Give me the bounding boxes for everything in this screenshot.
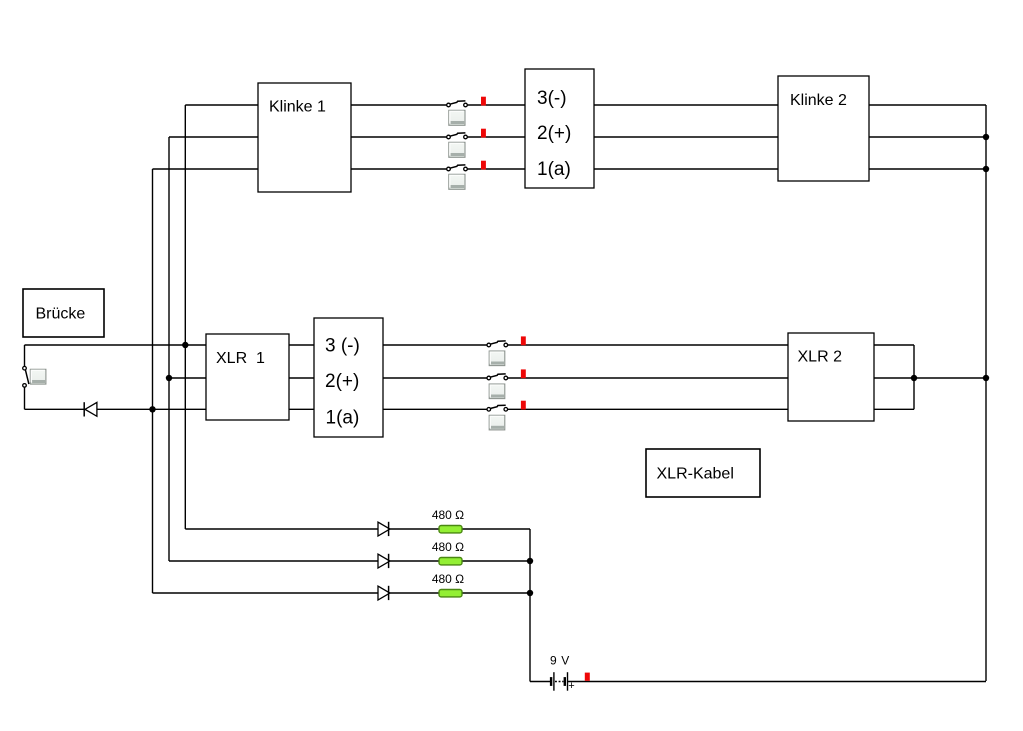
svg-text:+: + — [568, 680, 574, 692]
battery B1 9V — [550, 672, 575, 692]
node XLR2 short — [911, 375, 917, 381]
resistor R3 — [439, 590, 462, 597]
wire switch S4 to XLR2 pin3 — [507, 344, 788, 346]
node XLR2-trunk — [983, 375, 989, 381]
wire Klinke2 pin1 to right trunk — [869, 168, 986, 170]
wire resistor R2 to v530 — [462, 560, 530, 562]
svg-text:3 (-): 3 (-) — [325, 336, 360, 357]
wire Klinke1 pin3 left — [185, 104, 258, 106]
node Klinke2 pin1-trunk — [983, 166, 989, 172]
wire bus x185 to diode D1 — [185, 528, 378, 530]
svg-text:3(-): 3(-) — [537, 88, 567, 109]
wire resistor R3 to v530 — [462, 592, 530, 594]
wire battery plus to right trunk — [568, 681, 987, 683]
resistor R2 — [439, 558, 462, 565]
svg-text:9: 9 — [550, 654, 557, 668]
indicator red S4 — [521, 336, 526, 345]
wire XLR1 pin1 stub — [289, 408, 314, 410]
wire diode D4 to XLR1 pin1 — [97, 408, 206, 410]
switch S1 — [447, 101, 468, 107]
switch S5 — [487, 374, 508, 380]
wire Klinke1 pin1 left — [153, 168, 259, 170]
wire bus x152 to diode D3 — [153, 592, 378, 594]
indicator red S3 — [481, 161, 486, 170]
wire switch S6 to XLR2 pin1 — [507, 408, 788, 410]
box Bruecke — [23, 289, 104, 337]
svg-text:480 Ω: 480 Ω — [432, 540, 464, 554]
wire pinbox2 to switch S4 — [383, 344, 487, 346]
box Klinke 2 — [778, 76, 869, 181]
wire v530 to battery minus — [530, 681, 550, 683]
wire Klinke1 pin2 left — [169, 136, 258, 138]
indicator red S2 — [481, 129, 486, 138]
svg-text:Klinke 2: Klinke 2 — [790, 92, 847, 109]
wire diode D2 to resistor R2 — [388, 560, 439, 562]
wire bus x169 to diode D2 — [169, 560, 378, 562]
pushbutton S4 — [489, 351, 505, 366]
pushbutton S2 — [449, 142, 465, 157]
box Klinke 1 — [258, 83, 351, 192]
svg-text:2(+): 2(+) — [537, 123, 571, 144]
svg-text:480 Ω: 480 Ω — [432, 572, 464, 586]
wire XLR2 pin3 stub right — [874, 344, 914, 346]
wire pinbox2 to switch S5 — [383, 377, 487, 379]
wire switch S2 to pinbox — [467, 136, 525, 138]
wire vertical bus x185 — [184, 105, 186, 529]
svg-text:1(a): 1(a) — [537, 159, 571, 180]
wire pinbox2 to switch S6 — [383, 408, 487, 410]
node bus2-XLR1 pin2 — [166, 375, 172, 381]
indicator red battery — [585, 673, 590, 681]
diode D2 — [378, 554, 390, 568]
wire pinbox to Klinke2 pin1 — [594, 168, 778, 170]
indicator red S6 — [521, 401, 526, 410]
wire diode D1 to resistor R1 — [388, 528, 439, 530]
box XLR-Kabel — [646, 449, 760, 497]
box XLR 1 — [206, 334, 289, 420]
wire XLR2 pin2 to right trunk — [874, 377, 986, 379]
switch S2 — [447, 133, 468, 139]
node R2-v530 — [527, 558, 533, 564]
svg-text:Brücke: Brücke — [36, 305, 86, 322]
switch S4 — [487, 341, 508, 347]
pushbutton S7 — [30, 369, 46, 384]
wire switch S3 to pinbox — [467, 168, 525, 170]
switch S3 — [447, 165, 468, 171]
wire XLR1 pin3 stub — [289, 344, 314, 346]
svg-text:XLR-Kabel: XLR-Kabel — [657, 466, 734, 483]
wire vertical x530 to battery — [529, 529, 531, 682]
wire diode D3 to resistor R3 — [388, 592, 439, 594]
box XLR 2 — [788, 333, 874, 421]
wire bridge drop upper — [24, 345, 26, 366]
switch S6 — [487, 405, 508, 411]
wire vertical bus x152 — [152, 169, 154, 593]
diode D4 bridge — [84, 402, 97, 416]
svg-text:2(+): 2(+) — [325, 371, 359, 392]
wire Klinke1 pin1 to switch S3 — [351, 168, 447, 170]
switch S7 bridge — [23, 366, 29, 387]
indicator red S5 — [521, 369, 526, 378]
pushbutton S6 — [489, 415, 505, 430]
node bus1-XLR1 pin1 — [149, 406, 155, 412]
wire pinbox to Klinke2 pin2 — [594, 136, 778, 138]
box pin labels top — [525, 69, 594, 188]
diode D1 — [378, 522, 390, 536]
pushbutton S1 — [449, 110, 465, 125]
svg-text:480 Ω: 480 Ω — [432, 508, 464, 522]
wire resistor R1 to v530 — [462, 528, 530, 530]
wire Klinke1 pin2 to switch S2 — [351, 136, 447, 138]
node R3-v530 — [527, 590, 533, 596]
node bus3-XLR1 pin3 — [182, 342, 188, 348]
wire bus x169 to XLR1 pin2 — [169, 377, 206, 379]
wire XLR1 pin2 stub — [289, 377, 314, 379]
wire row3 left to XLR1 — [25, 344, 207, 346]
node Klinke2 pin2-trunk — [983, 134, 989, 140]
resistor R1 — [439, 526, 462, 533]
diode D3 — [378, 586, 390, 600]
wire XLR2 pin1 stub right — [874, 408, 914, 410]
wire bridge drop lower — [24, 387, 26, 409]
wire right trunk vertical — [985, 105, 987, 681]
svg-text:Klinke 1: Klinke 1 — [269, 99, 326, 116]
svg-text:XLR 2: XLR 2 — [798, 349, 843, 366]
pushbutton S3 — [449, 174, 465, 189]
svg-text:V: V — [561, 654, 569, 668]
wire vertical bus x169 — [168, 137, 170, 561]
svg-text:1(a): 1(a) — [326, 408, 360, 429]
wire XLR2 short vertical — [913, 345, 915, 409]
wire Klinke1 pin3 to switch S1 — [351, 104, 447, 106]
pushbutton S5 — [489, 384, 505, 399]
box pin labels middle — [314, 318, 383, 437]
indicator red S1 — [481, 97, 486, 106]
wire Klinke2 pin3 to right trunk — [869, 104, 986, 106]
wire pinbox to Klinke2 pin3 — [594, 104, 778, 106]
wire switch S5 to XLR2 pin2 — [507, 377, 788, 379]
wire switch S1 to pinbox — [467, 104, 525, 106]
wire bridge to diode D4 — [25, 408, 85, 410]
svg-text:XLR 1: XLR 1 — [216, 350, 265, 367]
wire Klinke2 pin2 to right trunk — [869, 136, 986, 138]
